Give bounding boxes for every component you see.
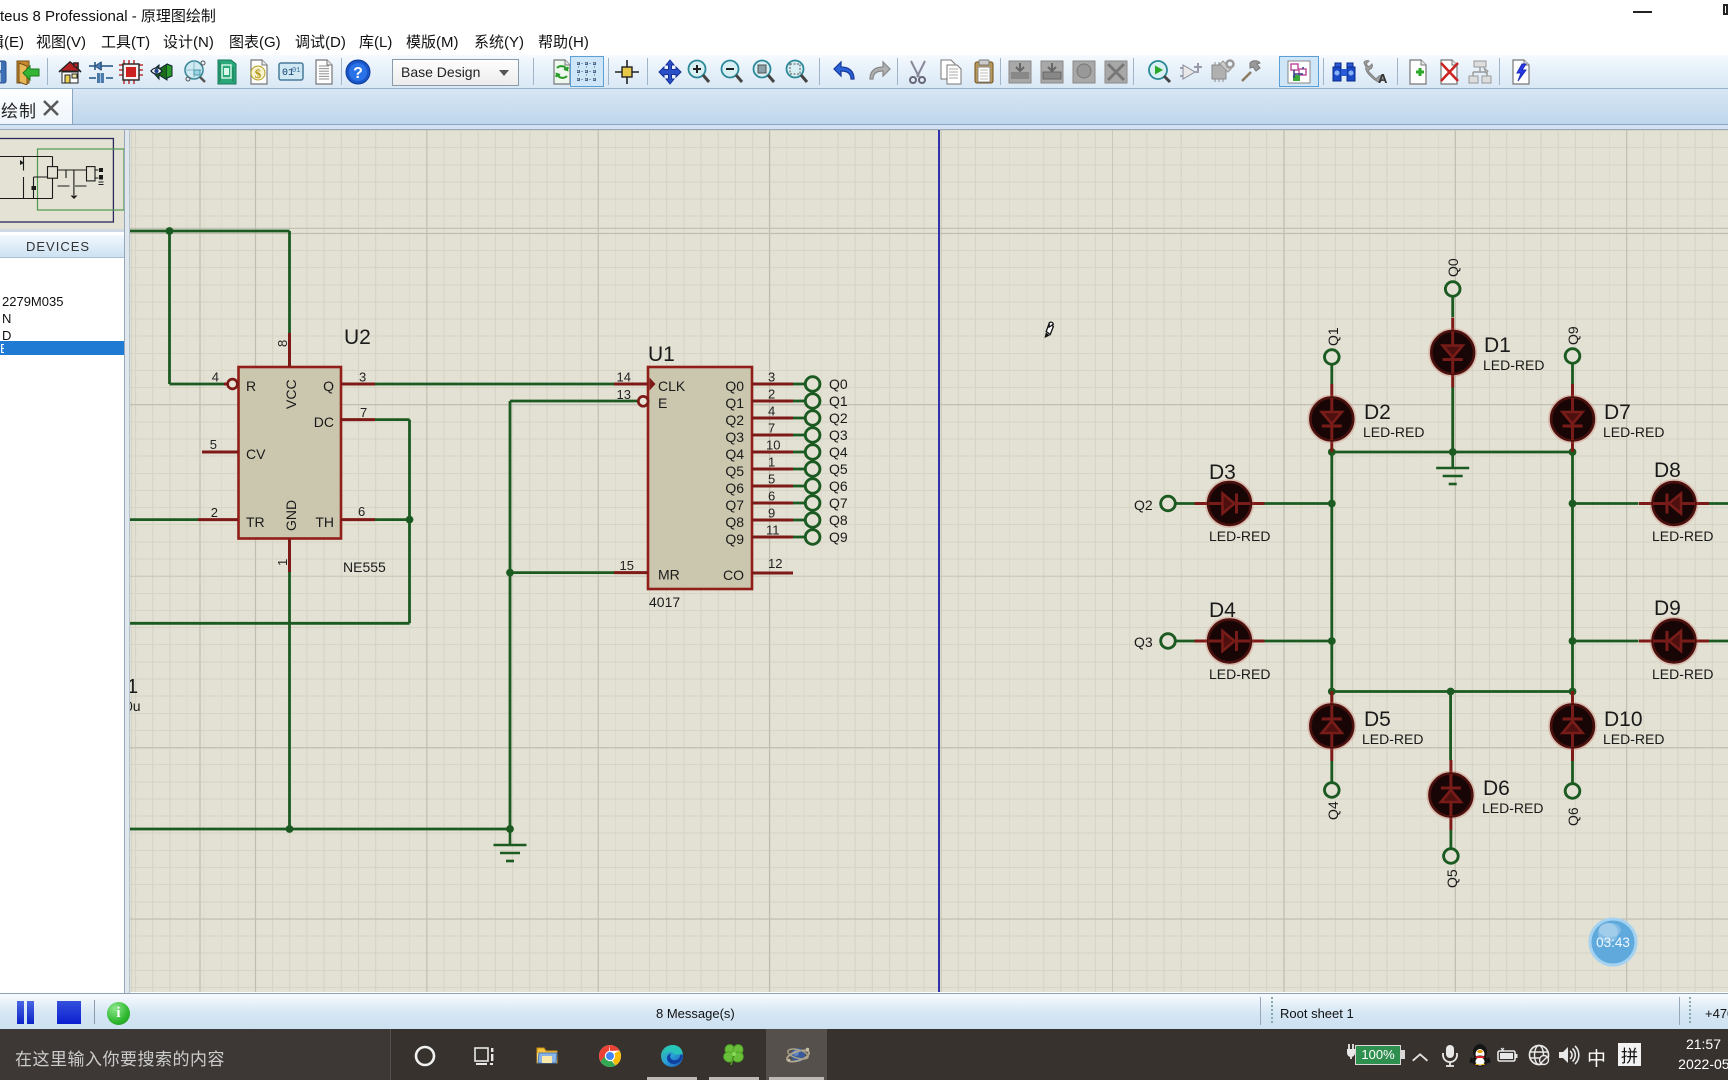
minimap drawing	[0, 139, 124, 223]
pin	[1571, 441, 1574, 455]
wire	[1235, 494, 1238, 514]
LED D5	[1308, 691, 1355, 761]
wire	[1449, 692, 1452, 761]
junction	[1328, 637, 1336, 645]
junction	[1569, 637, 1577, 645]
wire	[1209, 502, 1223, 505]
junction	[406, 516, 414, 524]
wire	[1175, 640, 1195, 643]
wire	[1332, 690, 1573, 693]
wire	[1330, 398, 1333, 412]
wire	[509, 401, 512, 829]
pin	[614, 383, 648, 386]
terminal Q3	[805, 428, 820, 443]
pin	[1330, 384, 1333, 398]
ground	[1436, 468, 1469, 484]
wire	[1571, 705, 1574, 719]
pin	[752, 451, 793, 454]
junction	[1569, 688, 1577, 696]
pin	[1696, 640, 1710, 643]
pin	[614, 571, 648, 574]
wire	[1449, 802, 1452, 816]
terminal Q4	[805, 445, 820, 460]
wire	[1681, 640, 1695, 643]
wire	[1332, 451, 1573, 454]
terminal Q4	[1325, 783, 1340, 798]
wire	[1653, 502, 1667, 505]
wire	[1709, 502, 1728, 505]
junction	[1447, 688, 1455, 696]
terminal Q8	[805, 513, 820, 528]
junction	[1328, 688, 1336, 696]
wire	[1709, 640, 1728, 643]
wire	[1175, 502, 1195, 505]
LED D9	[1639, 618, 1709, 665]
pin	[752, 519, 793, 522]
IC U2 NE555 body	[239, 367, 342, 539]
pin	[202, 451, 239, 454]
pin	[1571, 384, 1574, 398]
pin	[198, 518, 239, 521]
wire	[1451, 360, 1454, 374]
pin	[1251, 502, 1265, 505]
svg-text:?: ?	[353, 65, 363, 82]
wire	[1451, 452, 1454, 468]
pin	[1195, 502, 1209, 505]
wire	[130, 518, 198, 521]
pin	[1696, 502, 1710, 505]
junction	[1449, 448, 1457, 456]
wire	[288, 231, 291, 333]
pin	[341, 383, 375, 386]
pin	[752, 536, 793, 539]
wire	[793, 519, 806, 522]
LED D6	[1428, 760, 1475, 830]
svg-text:$: $	[255, 66, 262, 81]
junction	[1328, 500, 1336, 508]
terminal Q3	[1161, 634, 1176, 649]
wire	[1443, 358, 1463, 361]
terminal Q9	[1565, 349, 1580, 364]
pin	[1449, 760, 1452, 774]
pin	[1330, 691, 1333, 705]
wire	[793, 451, 806, 454]
pin	[341, 518, 375, 521]
pin	[752, 400, 793, 403]
IC U1 4017 body	[648, 367, 752, 589]
wire	[509, 829, 512, 845]
terminal Q2	[805, 411, 820, 426]
wire	[1681, 502, 1695, 505]
pin	[1330, 441, 1333, 455]
svg-text:01: 01	[292, 67, 300, 75]
junction	[166, 227, 174, 235]
wire	[130, 828, 510, 831]
pin	[1195, 640, 1209, 643]
wire	[1571, 761, 1574, 784]
wire	[1330, 364, 1333, 384]
wire	[170, 383, 225, 386]
wire	[1451, 296, 1454, 317]
pin	[752, 572, 793, 575]
pin	[1451, 374, 1454, 388]
wire	[510, 571, 614, 574]
wire	[793, 383, 806, 386]
terminal Q9	[805, 530, 820, 545]
wire	[510, 400, 639, 403]
terminal Q2	[1161, 496, 1176, 511]
inverting bubble	[638, 396, 648, 406]
terminal Q5	[1444, 849, 1459, 864]
terminal Q1	[805, 394, 820, 409]
pin	[1449, 817, 1452, 831]
timer bubble	[1590, 919, 1636, 965]
LED D10	[1549, 691, 1596, 761]
LED D7	[1549, 384, 1596, 454]
wire	[793, 485, 806, 488]
LED D2	[1308, 384, 1355, 454]
pin	[1251, 640, 1265, 643]
svg-text:A: A	[1378, 71, 1388, 85]
junction	[506, 825, 514, 833]
wire	[1237, 502, 1251, 505]
wire	[1237, 640, 1251, 643]
wire	[1441, 787, 1461, 790]
wire	[1209, 640, 1223, 643]
wire	[793, 468, 806, 471]
wire	[1450, 830, 1453, 849]
wire	[288, 572, 291, 829]
wire	[1666, 494, 1669, 514]
wire	[1322, 425, 1342, 428]
ground	[494, 845, 527, 861]
terminal Q6	[1565, 784, 1580, 799]
pin	[288, 539, 291, 573]
pin	[1639, 502, 1653, 505]
wire	[1330, 705, 1333, 719]
pin	[752, 502, 793, 505]
wire	[375, 418, 410, 421]
wire	[408, 420, 411, 624]
pin	[752, 468, 793, 471]
wire	[793, 434, 806, 437]
junction	[506, 569, 514, 577]
wire	[1330, 733, 1333, 747]
pin	[1451, 318, 1454, 332]
inverting bubble	[228, 379, 238, 389]
junction	[1569, 448, 1577, 456]
wire	[1571, 398, 1574, 412]
pin	[1571, 748, 1574, 762]
pin	[341, 418, 375, 421]
LED D1	[1429, 318, 1476, 388]
junction	[1328, 448, 1336, 456]
wire	[1563, 718, 1583, 721]
terminal Q5	[805, 462, 820, 477]
wire	[793, 536, 806, 539]
junction	[286, 825, 294, 833]
pin	[1330, 748, 1333, 762]
wire	[1571, 733, 1574, 747]
wire	[793, 502, 806, 505]
terminal Q0	[1445, 282, 1460, 297]
wire	[1322, 718, 1342, 721]
wire	[1235, 631, 1238, 651]
pin	[752, 485, 793, 488]
wire	[1265, 640, 1332, 643]
pin	[752, 434, 793, 437]
LED D3	[1195, 480, 1265, 527]
wire	[1330, 761, 1333, 783]
pin	[288, 333, 291, 367]
wire	[1449, 774, 1452, 788]
wire	[1451, 388, 1454, 453]
wire	[1571, 426, 1574, 440]
terminal Q6	[805, 479, 820, 494]
wire	[1573, 640, 1639, 643]
wire	[1330, 452, 1333, 718]
wire	[1451, 332, 1454, 346]
pin	[752, 383, 793, 386]
wire	[1563, 425, 1583, 428]
wire	[375, 383, 614, 386]
wire	[1653, 640, 1667, 643]
pin	[1639, 640, 1653, 643]
wire	[375, 518, 410, 521]
pin	[1571, 691, 1574, 705]
terminal Q7	[805, 496, 820, 511]
CLK edge arrow	[650, 378, 656, 391]
wire	[130, 230, 290, 233]
wire	[1573, 502, 1639, 505]
wire	[1330, 426, 1333, 440]
wire	[793, 400, 806, 403]
junction	[1569, 500, 1577, 508]
wire	[168, 231, 171, 384]
pin	[752, 417, 793, 420]
wire	[1666, 631, 1669, 651]
terminal Q0	[805, 377, 820, 392]
wire	[793, 417, 806, 420]
wire	[1571, 363, 1574, 384]
wire	[1571, 452, 1574, 718]
wire	[1265, 502, 1332, 505]
pencil cursor	[1045, 333, 1050, 339]
LED D4	[1195, 618, 1265, 665]
wire	[130, 622, 410, 625]
terminal Q1	[1325, 350, 1340, 365]
LED D8	[1639, 480, 1709, 527]
pin	[224, 383, 230, 386]
